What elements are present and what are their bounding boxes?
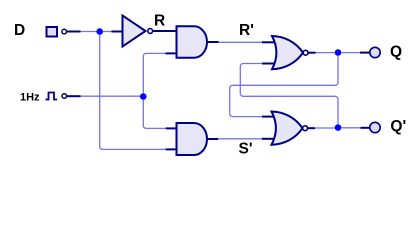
wire: Q feedback (Q junction to NOR U5 upper input)	[230, 56, 338, 117]
wire: Q junction to output pin	[341, 52, 369, 54]
wire: clock junction up to AND U2 lower input	[143, 53, 176, 93]
svg-text:S': S'	[239, 141, 253, 158]
wire: clock junction down to AND U3 upper input	[143, 100, 176, 129]
wire: Q feedback to NOR U5 upper input stub	[262, 116, 277, 118]
svg-text:1Hz: 1Hz	[20, 91, 40, 103]
wire: Q' junction to output pin	[341, 127, 369, 129]
wire: R' net (AND U2 output to NOR U4 input)	[207, 41, 277, 43]
AND gate U2 (top)	[177, 26, 208, 57]
node: D net junction	[96, 28, 103, 35]
wire: junction to inverter input stub	[103, 31, 123, 33]
wire: NOR U5 output to Q' junction	[308, 127, 339, 129]
wire: S' net (AND U3 output to NOR U5 lower input)	[207, 138, 277, 140]
wire: D junction down to AND U3 lower input	[100, 35, 177, 150]
input pin D (square port)	[47, 27, 58, 37]
svg-text:D: D	[14, 22, 25, 39]
node: Q' junction	[335, 124, 342, 131]
wire: inverter output to AND U2 input	[152, 30, 176, 32]
wire: clock pin to junction	[81, 95, 144, 97]
wire: Q' feedback (Q' junction to NOR U4 lower input)	[240, 64, 338, 125]
output pin Q'	[370, 122, 380, 132]
output pin Q	[370, 47, 380, 57]
svg-text:Q: Q	[390, 44, 402, 61]
NOR gate U4 (top)	[272, 36, 308, 69]
NOR gate U5 (bottom)	[272, 112, 308, 145]
svg-text:Q': Q'	[390, 118, 406, 135]
input pin clock connector circle	[62, 94, 67, 99]
wire: NOR U4 output to Q junction	[308, 52, 338, 54]
wire: D pin to junction	[81, 31, 100, 33]
input pin D connector circle	[62, 29, 67, 34]
node: Q junction	[335, 49, 342, 56]
svg-text:R': R'	[239, 22, 254, 39]
wire: D pin stub	[67, 31, 81, 33]
wire: Q' feedback to NOR U4 lower input stub	[262, 63, 277, 65]
clock waveform symbol	[46, 93, 58, 100]
node: clock net junction	[140, 93, 147, 100]
wire: clock pin stub	[67, 95, 81, 97]
svg-text:R: R	[154, 13, 165, 30]
AND gate U3 (bottom)	[177, 123, 208, 155]
inverter U1	[123, 16, 153, 47]
